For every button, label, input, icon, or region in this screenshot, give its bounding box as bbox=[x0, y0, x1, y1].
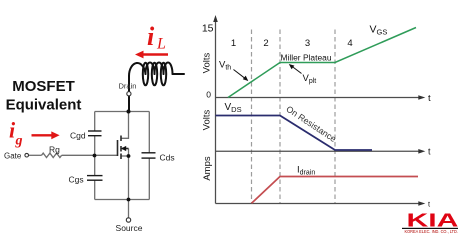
svg-text:Volts: Volts bbox=[202, 52, 213, 73]
svg-text:Amps: Amps bbox=[202, 156, 213, 181]
svg-text:Volts: Volts bbox=[202, 109, 213, 130]
svg-text:0: 0 bbox=[206, 90, 211, 100]
svg-text:t: t bbox=[428, 93, 431, 104]
svg-text:i: i bbox=[147, 22, 155, 51]
svg-text:Rg: Rg bbox=[49, 145, 60, 155]
svg-text:Miller Plateau: Miller Plateau bbox=[281, 53, 332, 62]
svg-text:L: L bbox=[156, 36, 166, 53]
svg-text:g: g bbox=[15, 134, 23, 149]
svg-text:15: 15 bbox=[202, 23, 214, 35]
svg-text:Source: Source bbox=[116, 223, 143, 233]
svg-text:Cgd: Cgd bbox=[70, 130, 86, 140]
svg-text:Cgs: Cgs bbox=[69, 175, 84, 185]
svg-text:MOSFET: MOSFET bbox=[12, 78, 75, 95]
svg-text:Gate: Gate bbox=[4, 152, 22, 161]
svg-text:KOREA ELEC. IND. CO., LTD.: KOREA ELEC. IND. CO., LTD. bbox=[405, 229, 458, 234]
svg-text:3: 3 bbox=[305, 38, 310, 49]
svg-text:2: 2 bbox=[263, 38, 268, 49]
svg-text:Drain: Drain bbox=[119, 82, 137, 91]
svg-text:1: 1 bbox=[231, 38, 236, 49]
svg-text:Equivalent: Equivalent bbox=[6, 97, 82, 114]
svg-text:4: 4 bbox=[347, 38, 352, 49]
svg-text:Cds: Cds bbox=[160, 152, 175, 162]
svg-text:KIA: KIA bbox=[407, 210, 458, 231]
